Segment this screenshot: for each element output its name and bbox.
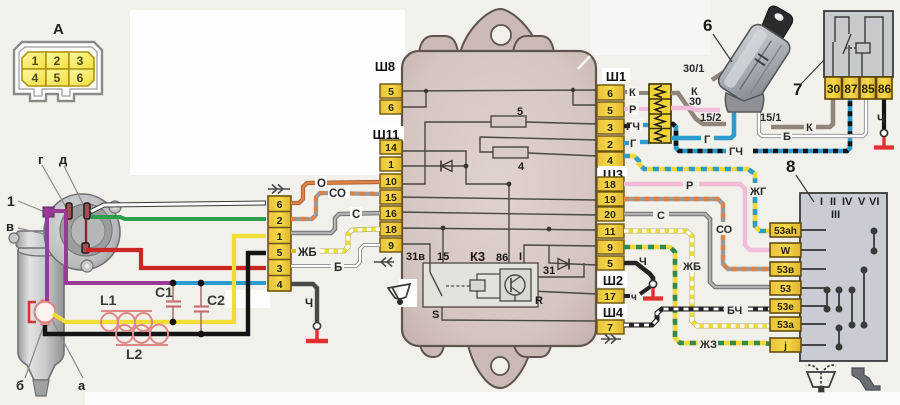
wire ch Ш2.17 stub to ground [624,287,650,296]
wire diode D1 line from Ш11.1 [397,165,466,167]
svg-text:85: 85 [861,82,875,96]
svg-text:86: 86 [496,252,508,264]
svg-text:5: 5 [607,105,613,117]
svg-text:ЖЗ: ЖЗ [699,339,717,351]
wire terminal labels right [626,63,885,351]
svg-text:15/2: 15/2 [700,112,721,124]
wire 15 drop to K3 [442,228,444,271]
svg-text:Б: Б [334,262,342,274]
switch 8 pins [770,223,801,352]
K3 labels [406,106,555,321]
label leader lines [18,165,86,378]
connector arrow above X1 [268,185,290,194]
wire black breaker to L2 to pin 5 [45,253,266,334]
wire K from block to ignition and relay [671,93,833,127]
brush lead maroon [82,219,89,253]
svg-text:II: II [830,196,836,208]
mounting block body [402,9,596,388]
svg-text:Ш8: Ш8 [375,59,395,74]
svg-text:IV: IV [842,196,853,208]
junction dots motor area [170,280,205,338]
svg-text:Ч: Ч [639,256,647,268]
wire Ch ground from pin 4 [291,284,317,322]
connector A outline [14,42,102,101]
wire K stub Ш1.6 [624,92,649,93]
svg-text:11: 11 [604,226,615,238]
wire fuse4 left lead to Ш1.2 line [480,137,597,152]
wire Ch Ш3.5 to ground [624,263,653,280]
svg-text:30: 30 [689,96,701,108]
svg-text:К: К [629,87,636,99]
wire ZhB to Ш11.18 [291,229,380,251]
junction dots [424,88,575,232]
svg-text:7: 7 [607,322,613,334]
svg-text:3: 3 [607,122,613,134]
svg-text:4: 4 [277,279,283,291]
connector Ш3 label [598,166,627,182]
wire Ш11.14 to diode junction [397,151,466,166]
svg-text:30: 30 [827,82,841,96]
connector Ш4 pin 7 [597,320,624,334]
diode VD1 [441,161,452,172]
svg-text:1: 1 [32,54,39,68]
white patch top right [590,0,710,55]
connector Ш1 pin 4 [597,152,624,167]
relay 7 box [824,11,893,77]
connector Ш4 label [598,304,627,320]
connector A cells [22,52,94,86]
capacitor C1 [166,283,181,322]
svg-text:К3: К3 [470,249,485,264]
wire S to Ш11.16 [291,213,380,233]
svg-text:53е: 53е [777,302,794,313]
svg-text:ГЧ: ГЧ [626,121,640,133]
svg-text:30/1: 30/1 [683,63,704,75]
wire Ch relay 86 to ground [882,99,886,129]
svg-text:Р: Р [629,104,636,116]
connector pin boxes of mounting block [368,58,630,334]
switch 8 box [800,193,887,361]
wire green to pin 2 [91,217,266,219]
wire 31v from Ш11.9 [397,244,430,272]
ignition switch 6 [712,6,793,112]
svg-text:W: W [781,246,791,257]
svg-text:2: 2 [54,54,61,68]
connector Ш1 pin 3 [597,119,624,134]
wire GCh stub Ш1.3 [624,125,649,126]
svg-text:БЧ: БЧ [727,305,742,317]
svg-text:Р: Р [686,180,693,192]
wire Ш11.15 to Ш3.19 [397,197,597,200]
wire GCh long run to relay 87 [671,99,850,151]
svg-text:7: 7 [793,80,802,99]
svg-text:53в: 53в [777,265,794,276]
connector Ш2 label [598,272,627,288]
svg-text:8: 8 [786,157,795,176]
diode VD2 [558,259,569,270]
wire labels left area [297,176,362,310]
svg-text:1: 1 [7,193,15,209]
svg-text:C1: C1 [155,284,173,300]
svg-text:15: 15 [385,192,397,204]
svg-text:6: 6 [277,199,283,211]
connector Ш11 pin 16 [380,206,402,220]
wire 30 pink from block to ignition [671,108,720,110]
wire O to Ш11.10 [291,182,380,203]
washer pump icon [852,368,880,390]
wire Ш11.18 to Ш3.11 [397,228,597,230]
svg-text:C2: C2 [207,292,225,308]
svg-text:5: 5 [388,86,394,98]
wire B to Ш11.9 [291,245,380,266]
wire red to pin 3 [86,250,266,268]
connector Ш11 pin 9 [380,238,402,252]
svg-text:L1: L1 [100,292,117,308]
motor labels [6,152,225,393]
svg-text:I: I [519,251,522,263]
connector Ш1 pin 2 [597,136,624,151]
svg-text:17: 17 [604,291,616,303]
fuse 5 [491,116,526,127]
connector Ш1 label [602,68,630,84]
svg-text:6: 6 [77,71,84,85]
relay 7 pins [825,77,892,99]
svg-text:87: 87 [844,82,858,96]
big numeral labels [703,16,802,176]
capacitor C2 [194,283,209,334]
svg-text:ГЧ: ГЧ [729,146,743,158]
connector Ш11 pin 18 [380,222,402,236]
svg-text:ЖБ: ЖБ [297,247,317,259]
wire diode D2 branch [549,245,597,265]
switch 8 contact bars [824,228,876,349]
svg-text:Ш2: Ш2 [603,273,623,288]
ground relay [874,129,894,147]
svg-text:Ч: Ч [305,298,313,310]
svg-text:СО: СО [716,224,733,236]
svg-text:31: 31 [543,265,555,277]
connector arrow below Ш11.9 [374,258,394,267]
svg-text:53: 53 [780,284,792,295]
svg-text:14: 14 [385,142,397,154]
wire SO Ш3.19 to 53v [624,199,770,269]
wire fuse5 to Ш1.3 [526,122,597,124]
svg-text:53а: 53а [777,320,794,331]
svg-text:3: 3 [277,263,283,275]
svg-text:19: 19 [604,194,616,206]
svg-text:18: 18 [385,224,397,236]
connector Ш8 label [370,58,400,74]
svg-text:ч: ч [631,292,637,303]
wire ZhB Ш3.11 to 53a [624,231,770,326]
svg-text:53ah: 53ah [774,226,797,237]
wiper motor gear housing [9,194,121,272]
switch 8 pin leads [801,230,826,345]
connector X1 strip [268,196,291,291]
connector Ш2 pin 17 [597,289,624,303]
connector Ш3 pin 20 [597,207,624,221]
svg-text:г: г [38,152,44,167]
connector junction block zigzag [649,84,671,143]
wire S lead to Ш4.7 [442,296,597,321]
svg-text:2: 2 [277,215,283,227]
svg-text:О: О [317,178,326,190]
svg-text:С: С [657,210,665,222]
wire white to pin 6 [90,203,266,212]
wire BCh Ш4.7 to 53e [624,309,770,325]
white patch bottom strip [85,392,900,405]
wire I lead to Ш3.9 [524,245,597,270]
K3 coil [446,274,500,298]
svg-text:4: 4 [607,155,613,167]
svg-text:ЖГ: ЖГ [749,186,767,198]
switch 8 positions [820,196,879,221]
svg-text:I: I [820,196,823,208]
wire R lead to Ш2.17 [531,291,597,294]
svg-text:S: S [432,309,439,321]
svg-text:L2: L2 [126,346,143,362]
wire fuse5 feed from Ш11.10 [397,122,491,184]
connector Ш11 pin 15 [380,190,402,204]
svg-text:Ш4: Ш4 [603,305,624,320]
wire jumper to Ш1.5 [573,90,597,105]
wire SO to Ш11.15 [291,193,380,219]
inductor L1 [101,311,152,331]
svg-text:15: 15 [437,251,449,263]
svg-text:Г: Г [630,138,637,150]
wiper icon at block [388,279,417,307]
svg-text:5: 5 [607,258,613,270]
svg-text:VI: VI [869,196,879,208]
brush g [66,203,72,219]
wire ZhG from Ш1.4 to 53ah [624,156,770,231]
connector Ш11 pin 14 [380,140,402,154]
relay K3 box [423,263,538,307]
connector Ш3 pin 9 [597,240,624,254]
svg-text:86: 86 [878,82,892,96]
connector Ш11 pin 10 [380,174,402,188]
connector Ш3 pin 5 [597,256,624,270]
svg-text:15/1: 15/1 [760,112,781,124]
wiper motor M body [16,231,66,396]
connector Ш8 pin 6 [380,100,402,114]
svg-text:1: 1 [388,159,394,171]
thermal breaker [35,300,56,325]
svg-text:д: д [59,152,68,167]
wire G blue to switch 15/2 [671,110,734,138]
svg-text:j: j [783,341,787,352]
breaker clamp red bracket [29,302,36,322]
wire yellow breaker to L1 to pin 1 [53,236,266,322]
block internal wiring [397,90,597,321]
svg-text:а: а [78,378,86,393]
svg-text:С: С [352,209,360,221]
wire B white from switch 15/1 to relay 85 [759,99,866,136]
svg-text:9: 9 [607,242,613,254]
svg-text:5: 5 [277,247,283,259]
svg-text:К: К [806,122,813,134]
svg-text:А: А [53,21,64,38]
svg-text:2: 2 [607,139,613,151]
svg-text:4: 4 [518,161,525,173]
svg-text:6: 6 [607,88,613,100]
connector Ш1 pin 5 [597,102,624,117]
svg-text:III: III [831,209,840,221]
svg-text:Ч: Ч [877,112,885,126]
connector Ш3 pin 11 [597,224,624,238]
svg-text:Б: Б [783,131,791,143]
svg-text:V: V [858,196,866,208]
wire 31 lead [531,263,584,277]
washer wiper icon [806,365,836,391]
connector Ш11 pin 1 [380,157,402,171]
svg-text:4: 4 [32,71,39,85]
svg-text:Ш1: Ш1 [606,69,626,84]
wire Ш11.16 to Ш3.20 [397,212,597,215]
wire fuse4 to Ш1.4 [528,153,597,156]
wire Ш8.5 to Ш1.6 top bus [402,90,597,91]
wire S gray Ш3.20 to 53 [624,214,770,287]
fuse 4 [493,147,528,158]
connector arrow below Ш4.7 [601,335,621,344]
wire junction drop to 86 [466,166,509,270]
connector Ш8 pin 5 [380,84,402,98]
wire G stub Ш1.2 [624,142,649,143]
wire jumper to Ш8.6 [402,91,426,107]
wire R stub Ш1.5 [624,107,649,111]
svg-text:R: R [535,295,543,307]
brush holder block [43,207,54,217]
svg-text:20: 20 [604,209,616,221]
wire R pink Ш3.18 to W [624,184,770,250]
K3 contact [430,263,442,296]
white patch top-center [130,10,405,175]
leader lines for 6 7 8 [713,34,824,202]
connector Ш11 label [368,126,404,142]
connector Ш3 pin 18 [597,177,624,191]
svg-text:18: 18 [604,179,616,191]
ground under X1 [306,322,328,341]
svg-text:5: 5 [517,106,523,118]
connector Ш3 pin 19 [597,192,624,206]
inductor L2 [116,324,168,345]
wire blue to pin 4 [173,281,266,285]
svg-text:10: 10 [385,176,397,188]
connector Ш1 pin 6 [597,85,624,100]
wire ZhZ Ш3.9 to j [624,247,770,344]
svg-text:5: 5 [54,71,61,85]
white patch right of motor [225,290,270,308]
svg-text:31в: 31в [406,251,425,263]
svg-text:ЖБ: ЖБ [682,261,701,273]
svg-text:3: 3 [77,54,84,68]
svg-text:Г: Г [704,134,711,146]
brush d [84,203,90,219]
svg-text:6: 6 [703,16,712,35]
svg-text:в: в [6,219,14,234]
svg-text:9: 9 [388,240,394,252]
svg-text:СО: СО [329,188,346,200]
svg-text:б: б [16,378,24,393]
svg-text:1: 1 [277,231,283,243]
K3 transistor [505,275,525,301]
K3 transistor box [500,269,531,301]
svg-text:6: 6 [388,102,394,114]
ground at Ш3 [643,280,663,298]
svg-text:16: 16 [385,208,397,220]
wire purple motor circuit [45,209,173,301]
